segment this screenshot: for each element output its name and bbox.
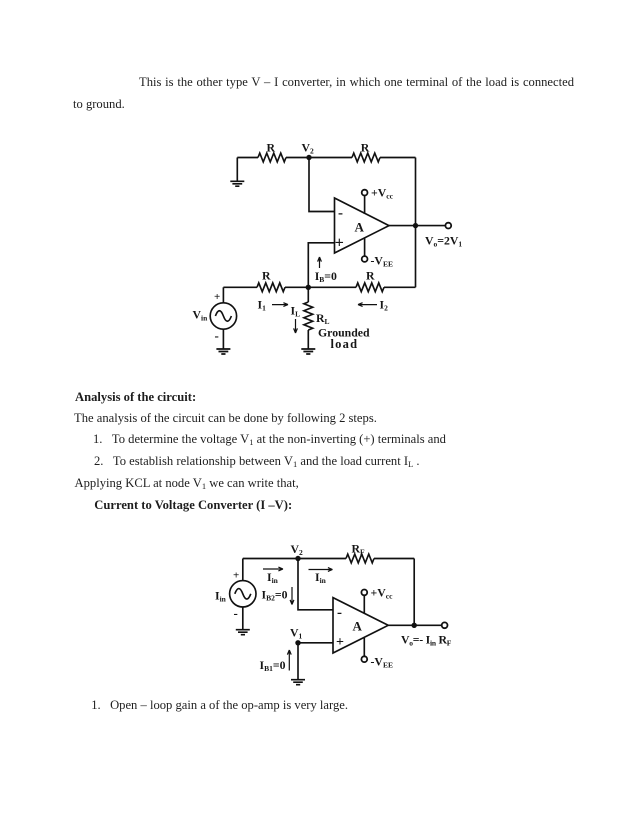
svg-text:Vo=2V1: Vo=2V1 [425, 234, 462, 249]
svg-text:-: - [234, 606, 238, 621]
svg-text:IB2=0: IB2=0 [262, 588, 288, 603]
svg-text:Iin: Iin [315, 570, 327, 585]
svg-text:R: R [267, 141, 276, 155]
svg-text:-VEE: -VEE [371, 254, 393, 269]
svg-text:A: A [355, 220, 365, 235]
svg-text:IB=0: IB=0 [315, 269, 337, 284]
svg-text:IL: IL [291, 304, 301, 319]
svg-text:I2: I2 [380, 298, 389, 313]
svg-text:+: + [214, 291, 220, 303]
svg-text:load: load [331, 337, 359, 351]
svg-text:Iin: Iin [215, 589, 227, 604]
svg-text:RL: RL [316, 311, 330, 326]
svg-text:R: R [262, 269, 271, 283]
svg-text:Iin: Iin [267, 570, 279, 585]
svg-text:Vin: Vin [193, 308, 209, 323]
svg-text:I1: I1 [258, 298, 267, 313]
svg-text:V1: V1 [290, 626, 303, 641]
svg-text:-VEE: -VEE [371, 655, 393, 670]
svg-text:-: - [338, 206, 343, 222]
svg-text:+: + [233, 570, 239, 582]
svg-text:+Vcc: +Vcc [371, 586, 394, 601]
svg-text:A: A [353, 619, 363, 634]
svg-text:-: - [215, 328, 219, 343]
svg-text:+: + [335, 235, 344, 252]
svg-text:R: R [366, 269, 375, 283]
svg-text:RF: RF [352, 542, 366, 557]
svg-text:-: - [337, 605, 342, 621]
svg-text:R: R [361, 141, 370, 155]
svg-text:+Vcc: +Vcc [371, 186, 394, 201]
svg-text:Vo=- Iin RF: Vo=- Iin RF [401, 633, 452, 648]
svg-text:V2: V2 [302, 141, 315, 156]
svg-text:V2: V2 [291, 542, 304, 557]
svg-text:+: + [336, 635, 344, 650]
svg-text:IB1=0: IB1=0 [260, 658, 286, 673]
